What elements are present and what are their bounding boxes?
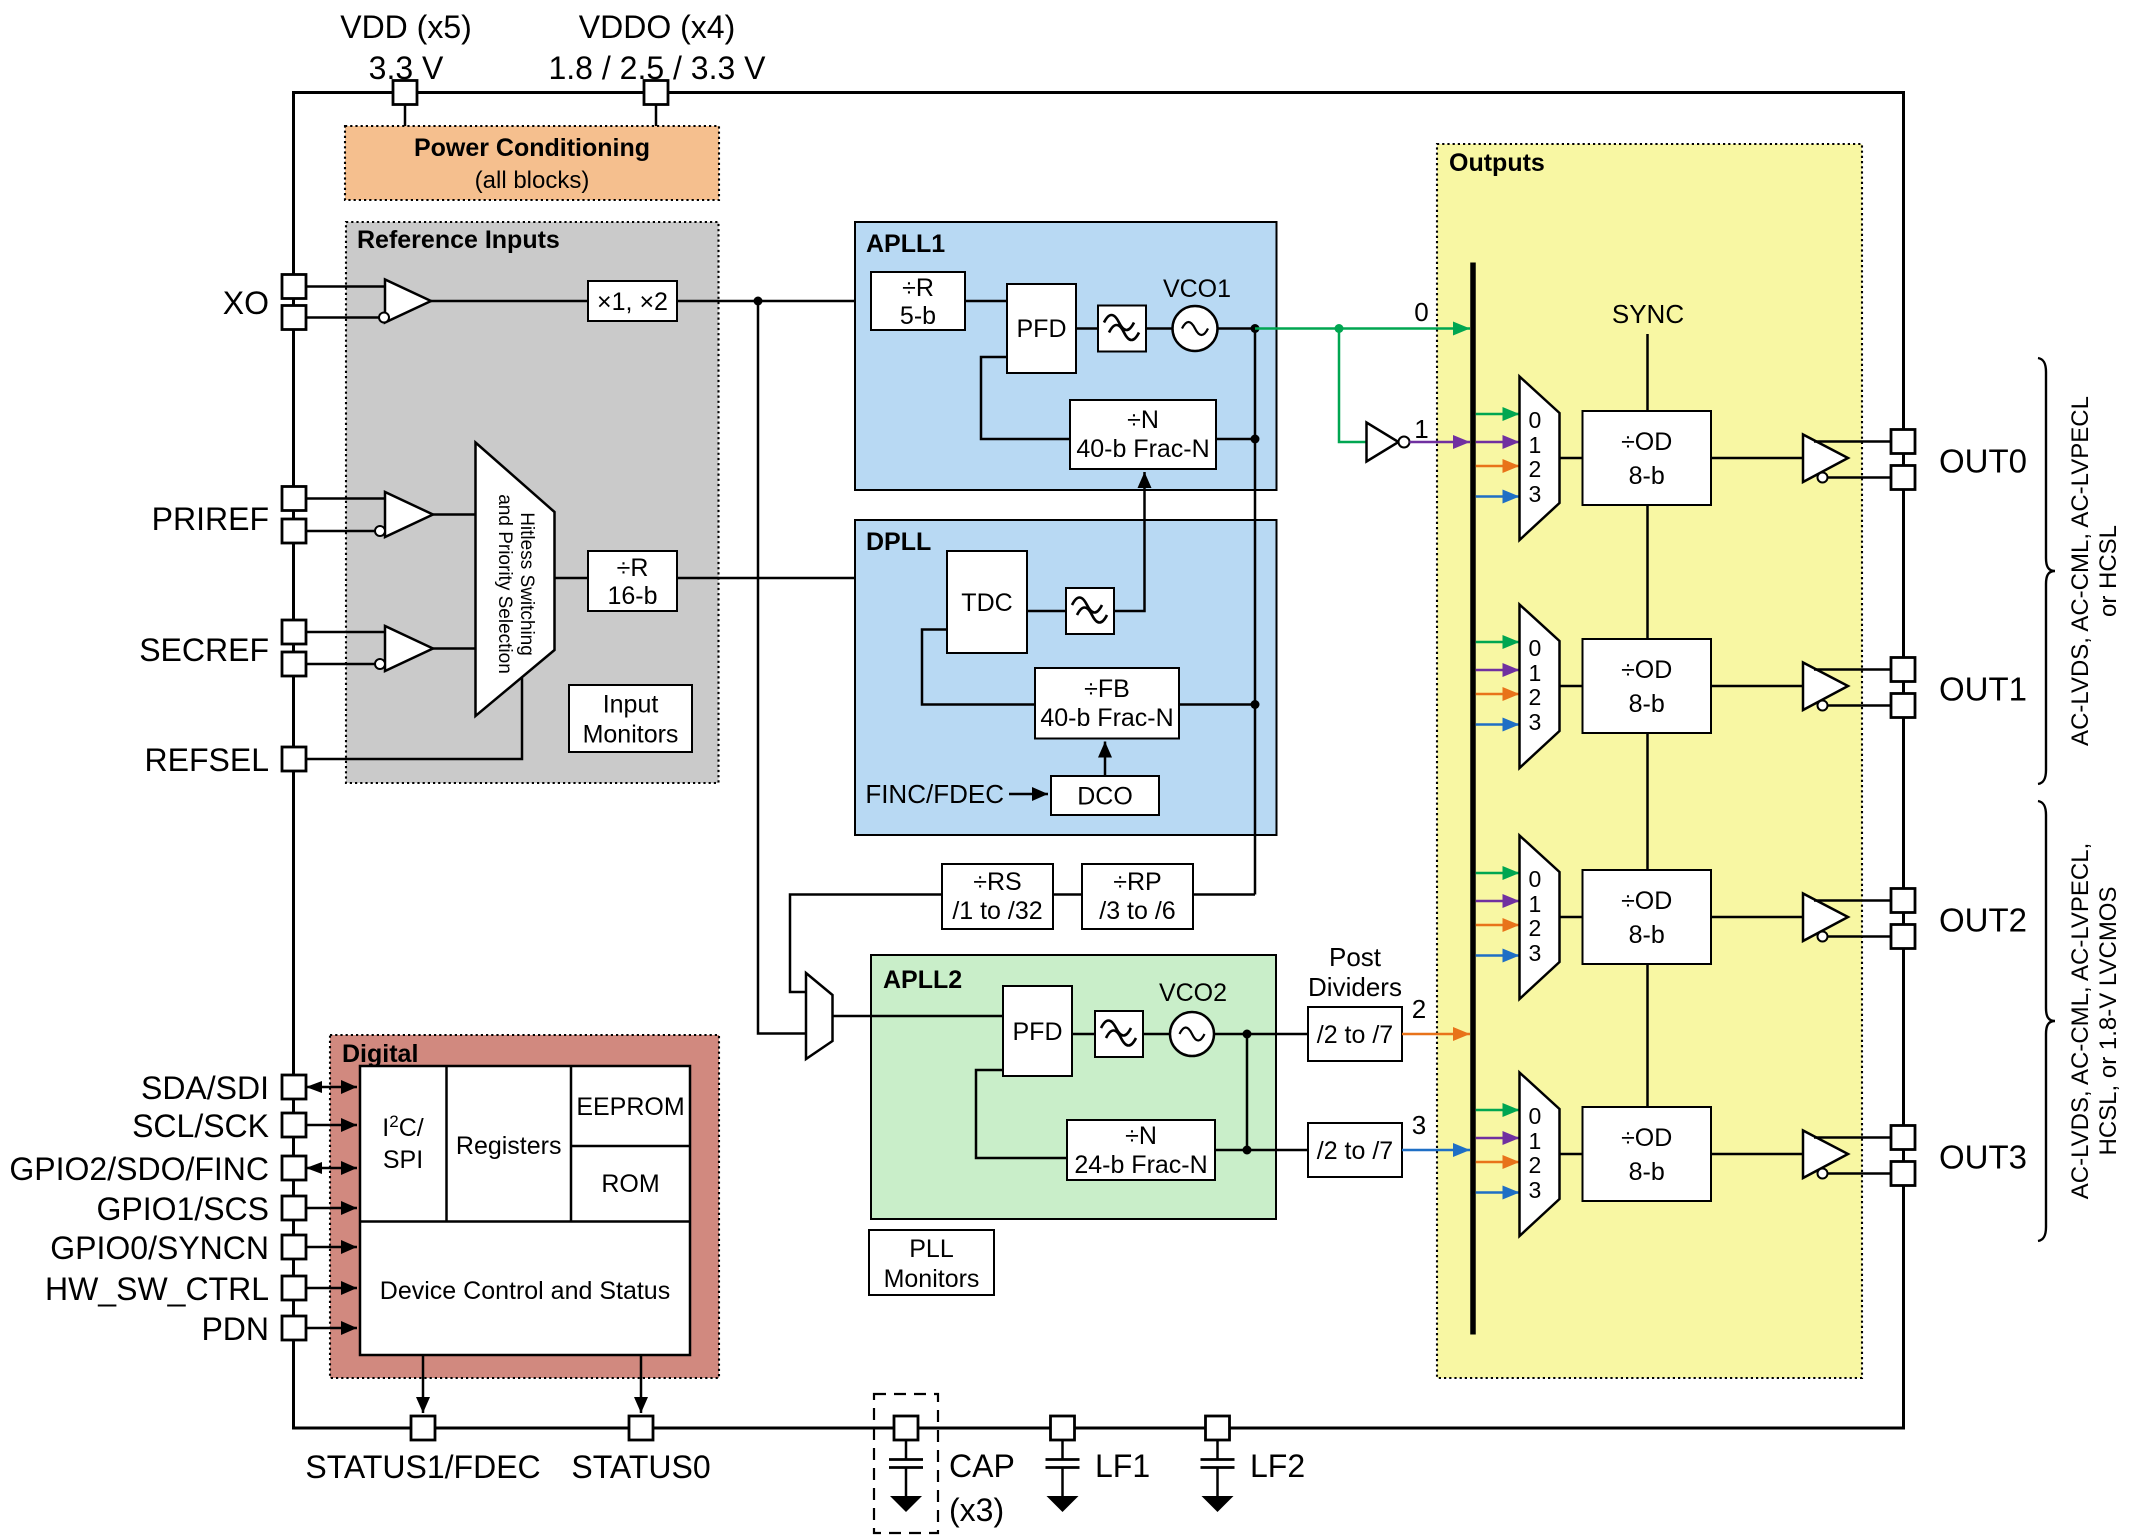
- block Reference Inputs: [346, 222, 719, 783]
- buffer OUT0: [1803, 435, 1848, 483]
- svg-text:VCO1: VCO1: [1163, 275, 1231, 303]
- mux APLL2 ref select: [806, 973, 833, 1059]
- wire OD2 to buffer: [1711, 916, 1803, 919]
- block Digital: [330, 1035, 719, 1378]
- svg-text:16-b: 16-b: [607, 582, 657, 610]
- svg-text:÷R: ÷R: [902, 274, 934, 302]
- buffer OUT1: [1803, 663, 1848, 711]
- svg-text:PRIREF: PRIREF: [152, 501, 269, 537]
- svg-text:SPI: SPI: [383, 1146, 423, 1174]
- node VCO2 out: [1243, 1030, 1252, 1039]
- block APLL2: [871, 955, 1276, 1219]
- svg-text:FINC/FDEC: FINC/FDEC: [865, 779, 1004, 809]
- svg-text:APLL2: APLL2: [883, 966, 962, 994]
- block DPLL: [855, 520, 1277, 835]
- block Input Monitors: [569, 685, 692, 752]
- svg-text:LF1: LF1: [1095, 1448, 1150, 1484]
- buffer PRIREF: [385, 492, 433, 537]
- svg-text:REFSEL: REFSEL: [145, 742, 269, 778]
- wire mux3 to OD3: [1560, 1153, 1583, 1156]
- block Power Conditioning: [345, 126, 719, 200]
- wire vertical to divRP: [1193, 893, 1255, 896]
- svg-text:Input: Input: [603, 691, 659, 719]
- wire N2 to postdiv3: [1215, 1149, 1308, 1152]
- pin SECREF (pair): [282, 620, 306, 644]
- svg-text:I2C/: I2C/: [382, 1112, 423, 1142]
- wire VCO1 net vertical: [1254, 329, 1257, 895]
- svg-text:0: 0: [1529, 866, 1542, 892]
- svg-text:GPIO1/SCS: GPIO1/SCS: [97, 1191, 270, 1227]
- svg-text:÷OD: ÷OD: [1621, 1124, 1672, 1152]
- wire TDC feedback: [922, 630, 1035, 705]
- svg-text:24-b Frac-N: 24-b Frac-N: [1074, 1151, 1207, 1179]
- node green tap: [1335, 324, 1344, 333]
- svg-text:DPLL: DPLL: [866, 528, 931, 556]
- svg-text:8-b: 8-b: [1629, 921, 1665, 949]
- svg-text:40-b Frac-N: 40-b Frac-N: [1076, 435, 1209, 463]
- svg-text:(all blocks): (all blocks): [475, 167, 590, 194]
- svg-text:1: 1: [1529, 432, 1542, 458]
- svg-text:Outputs: Outputs: [1449, 149, 1545, 177]
- svg-text:÷N: ÷N: [1127, 406, 1159, 434]
- svg-text:VDDO (x4): VDDO (x4): [579, 9, 735, 45]
- wire PFD1 to filter1: [1076, 327, 1098, 330]
- svg-text:OUT2: OUT2: [1939, 902, 2027, 939]
- pin GPIO2/SDO/FINC: [282, 1156, 306, 1180]
- svg-text:/3 to /6: /3 to /6: [1099, 897, 1175, 925]
- inverter for net1: [1367, 423, 1399, 462]
- svg-text:Power Conditioning: Power Conditioning: [414, 134, 650, 162]
- wire PRIREF to buffer: [306, 497, 385, 500]
- svg-text:PFD: PFD: [1017, 315, 1067, 343]
- block x1 x2: [588, 281, 677, 321]
- buffer XO input: [385, 280, 431, 323]
- svg-text:DCO: DCO: [1077, 783, 1133, 811]
- divider FB 40-b Frac-N: [1035, 668, 1179, 739]
- svg-text:40-b Frac-N: 40-b Frac-N: [1040, 704, 1173, 732]
- wire TDC to filter2: [1027, 610, 1066, 613]
- svg-text:LF2: LF2: [1250, 1448, 1305, 1484]
- pin HW_SW_CTRL: [282, 1276, 306, 1300]
- pin STATUS0: [629, 1416, 653, 1440]
- svg-text:(x3): (x3): [949, 1492, 1004, 1528]
- svg-text:2: 2: [1412, 994, 1426, 1024]
- brace OUT0/OUT1: [2038, 358, 2055, 784]
- ground LF1: [1047, 1496, 1079, 1512]
- node VCO1 out: [1251, 324, 1260, 333]
- mux OUT3: [1520, 1073, 1560, 1237]
- mux OUT0 input arrows: [1476, 413, 1520, 416]
- svg-text:XO: XO: [223, 285, 269, 321]
- wire RP to RS: [1053, 893, 1082, 896]
- wire buffer to x1x2: [431, 300, 588, 303]
- post divider 3: [1308, 1123, 1402, 1177]
- pin SCL/SCK: [282, 1113, 306, 1137]
- svg-text:3: 3: [1412, 1110, 1426, 1140]
- wire mux1 to OD1: [1560, 685, 1583, 688]
- loop filter DPLL: [1066, 588, 1114, 634]
- divider top/DCS: [360, 1220, 690, 1223]
- svg-text:0: 0: [1529, 1103, 1542, 1129]
- divider EEPROM/ROM: [571, 1145, 690, 1148]
- svg-text:STATUS1/FDEC: STATUS1/FDEC: [305, 1449, 540, 1485]
- pin OUT3 (pair): [1891, 1126, 1915, 1150]
- wire divR5 to PFD1: [965, 300, 1007, 303]
- svg-text:Monitors: Monitors: [884, 1265, 980, 1293]
- divider OD1 8-b: [1583, 639, 1712, 733]
- svg-text:÷R: ÷R: [617, 554, 649, 582]
- svg-text:1: 1: [1529, 660, 1542, 686]
- divider Registers/EEPROM: [570, 1066, 573, 1222]
- wire net0 green: [1255, 327, 1470, 330]
- svg-text:2: 2: [1529, 1152, 1542, 1178]
- svg-text:OUT3: OUT3: [1939, 1139, 2027, 1176]
- divider R 5-b: [871, 272, 965, 330]
- svg-text:÷N: ÷N: [1125, 1122, 1157, 1150]
- mux OUT2: [1520, 836, 1560, 1000]
- svg-text:Device Control and Status: Device Control and Status: [380, 1277, 670, 1305]
- svg-text:/1 to /32: /1 to /32: [952, 897, 1042, 925]
- capacitor LF1: [1061, 1440, 1064, 1459]
- wire filter3 to VCO2: [1143, 1033, 1170, 1036]
- svg-text:Post: Post: [1329, 942, 1382, 972]
- svg-text:0: 0: [1414, 297, 1428, 327]
- svg-text:PDN: PDN: [201, 1311, 269, 1347]
- svg-text:SDA/SDI: SDA/SDI: [141, 1070, 269, 1106]
- svg-text:0: 0: [1529, 635, 1542, 661]
- svg-text:Dividers: Dividers: [1308, 972, 1402, 1002]
- svg-text:Registers: Registers: [456, 1132, 562, 1160]
- svg-text:2: 2: [1529, 684, 1542, 710]
- wire divR16 to TDC: [677, 577, 947, 580]
- loop filter APLL1: [1098, 306, 1146, 352]
- wire PFD2 feedback: [976, 1070, 1067, 1158]
- svg-text:Hitless Switching: Hitless Switching: [516, 512, 537, 656]
- pin OUT1 (pair): [1891, 658, 1915, 682]
- node N1 tap: [1251, 435, 1260, 444]
- wire FINC arrow to DCO: [1009, 793, 1048, 796]
- svg-text:TDC: TDC: [961, 589, 1012, 617]
- svg-text:÷OD: ÷OD: [1621, 656, 1672, 684]
- svg-text:STATUS0: STATUS0: [571, 1449, 710, 1485]
- svg-text:SCL/SCK: SCL/SCK: [132, 1108, 269, 1144]
- block DCO: [1051, 776, 1159, 815]
- svg-text:AC-LVDS, AC-CML, AC-LVPECL: AC-LVDS, AC-CML, AC-LVPECL: [2067, 396, 2094, 746]
- wire net1 purple to bus: [1410, 441, 1471, 444]
- svg-text:2: 2: [1529, 915, 1542, 941]
- divider R 16-b: [588, 551, 677, 611]
- svg-text:/2 to /7: /2 to /7: [1317, 1021, 1393, 1049]
- post divider 2: [1308, 1007, 1402, 1061]
- svg-text:×1, ×2: ×1, ×2: [597, 288, 668, 316]
- svg-text:HCSL, or 1.8-V LVCMOS: HCSL, or 1.8-V LVCMOS: [2095, 887, 2122, 1156]
- mux OUT3 input arrows: [1476, 1109, 1520, 1112]
- wire mux0 to OD0: [1560, 457, 1583, 460]
- capacitor CAP: [905, 1440, 908, 1459]
- wire green to inverter: [1339, 329, 1367, 443]
- svg-text:PLL: PLL: [909, 1235, 954, 1263]
- svg-text:3: 3: [1529, 709, 1542, 735]
- svg-text:CAP: CAP: [949, 1448, 1015, 1484]
- oscillator VCO1: [1173, 306, 1218, 351]
- svg-text:5-b: 5-b: [900, 302, 936, 330]
- wire STATUS0 arrow: [640, 1355, 643, 1413]
- svg-text:GPIO2/SDO/FINC: GPIO2/SDO/FINC: [9, 1151, 269, 1187]
- wire mux2 to OD2: [1560, 916, 1583, 919]
- pin GPIO0/SYNCN: [282, 1235, 306, 1259]
- node N2 tap: [1243, 1146, 1252, 1155]
- mux OUT1: [1520, 605, 1560, 769]
- block APLL1: [855, 222, 1277, 490]
- CAP dashed box: [874, 1394, 938, 1533]
- wire mux to PFD2 overlay: [871, 1015, 1003, 1018]
- wire SECREF buffer to selector: [433, 647, 476, 650]
- wire RS to mux: [790, 895, 942, 993]
- svg-text:8-b: 8-b: [1629, 690, 1665, 718]
- mux OUT0: [1520, 377, 1560, 541]
- digital core box: [360, 1066, 690, 1355]
- block TDC: [947, 551, 1027, 653]
- chip boundary: [294, 93, 1904, 1429]
- wire net2 orange to bus: [1402, 1033, 1470, 1036]
- svg-text:OUT1: OUT1: [1939, 671, 2027, 708]
- svg-text:3: 3: [1529, 481, 1542, 507]
- pin REFSEL: [282, 747, 306, 771]
- svg-text:÷RS: ÷RS: [973, 868, 1021, 896]
- wire PFD2 to filter3: [1072, 1033, 1095, 1036]
- svg-text:1: 1: [1414, 414, 1428, 444]
- wire VDD stub: [404, 105, 407, 128]
- wire XO to buffer: [306, 285, 385, 288]
- svg-text:8-b: 8-b: [1629, 462, 1665, 490]
- divider OD2 8-b: [1583, 870, 1712, 964]
- wire SYNC chain: [1646, 334, 1649, 411]
- svg-text:AC-LVDS, AC-CML, AC-LVPECL,: AC-LVDS, AC-CML, AC-LVPECL,: [2067, 843, 2094, 1200]
- wire x1x2 to APLL1: [677, 300, 871, 303]
- wire SECREF to buffer: [306, 631, 385, 634]
- wire N1 out to vertical: [1216, 438, 1255, 441]
- svg-text:3.3 V: 3.3 V: [369, 50, 444, 86]
- svg-text:8-b: 8-b: [1629, 1158, 1665, 1186]
- block Outputs: [1437, 144, 1862, 1378]
- mux OUT2 input arrows: [1476, 872, 1520, 875]
- pin PDN: [282, 1316, 306, 1340]
- svg-text:APLL1: APLL1: [866, 230, 945, 258]
- divider N1 40-b Frac-N: [1070, 400, 1216, 469]
- svg-text:÷OD: ÷OD: [1621, 887, 1672, 915]
- wire DCO to FB (arrow up): [1104, 742, 1107, 777]
- svg-text:1.8 / 2.5 / 3.3 V: 1.8 / 2.5 / 3.3 V: [548, 50, 766, 86]
- wire filter1 to VCO1: [1146, 327, 1173, 330]
- wire STATUS1 arrow: [422, 1355, 425, 1413]
- wire VDDO stub: [655, 105, 658, 128]
- wire VCO1 out: [1218, 327, 1256, 330]
- oscillator VCO2: [1170, 1012, 1214, 1056]
- wire FB out: [1179, 703, 1255, 706]
- ground LF2: [1202, 1496, 1234, 1512]
- pin OUT2 (pair): [1891, 889, 1915, 913]
- pin OUT0 (pair): [1891, 430, 1915, 454]
- wire REFSEL to selector: [306, 678, 522, 759]
- selector Hitless Switching and Priority Selection: [476, 443, 555, 717]
- wire VCO2 tap vertical: [1246, 1034, 1249, 1150]
- block PFD1: [1007, 284, 1076, 373]
- brace OUT2/OUT3: [2038, 801, 2055, 1241]
- svg-text:1: 1: [1529, 891, 1542, 917]
- wire OD1 to buffer: [1711, 685, 1803, 688]
- buffer OUT3: [1803, 1131, 1848, 1179]
- svg-text:SECREF: SECREF: [139, 632, 269, 668]
- svg-text:÷RP: ÷RP: [1113, 868, 1161, 896]
- mux OUT1 input arrows: [1476, 641, 1520, 644]
- wire PFD1 feedback: [981, 357, 1070, 439]
- divider OD3 8-b: [1583, 1107, 1712, 1201]
- svg-text:HW_SW_CTRL: HW_SW_CTRL: [45, 1271, 269, 1307]
- pin PRIREF (pair): [282, 487, 306, 511]
- svg-text:0: 0: [1529, 407, 1542, 433]
- divider I2C/Registers: [445, 1066, 448, 1222]
- svg-text:2: 2: [1529, 456, 1542, 482]
- wire filter2 up to divN1 (arrow): [1114, 472, 1145, 611]
- pin SDA/SDI: [282, 1075, 306, 1099]
- node XO junction: [754, 297, 763, 306]
- wire net3 blue to bus: [1402, 1149, 1470, 1152]
- pin XO (pair): [282, 275, 306, 299]
- divider OD0 8-b: [1583, 411, 1712, 505]
- svg-text:VDD (x5): VDD (x5): [340, 9, 472, 45]
- svg-text:PFD: PFD: [1013, 1018, 1063, 1046]
- wire OD0 to buffer: [1711, 457, 1803, 460]
- wire PRIREF buffer to selector: [433, 513, 476, 516]
- svg-text:÷OD: ÷OD: [1621, 428, 1672, 456]
- block PLL Monitors: [869, 1230, 994, 1295]
- divider RS /1 to /32: [942, 864, 1053, 929]
- pin STATUS1/FDEC: [411, 1416, 435, 1440]
- wire mux to PFD2: [833, 1015, 1004, 1018]
- svg-text:ROM: ROM: [601, 1170, 659, 1198]
- svg-text:Monitors: Monitors: [583, 721, 679, 749]
- svg-text:÷FB: ÷FB: [1084, 675, 1130, 703]
- ground CAP: [890, 1496, 922, 1512]
- svg-text:Reference Inputs: Reference Inputs: [357, 226, 560, 254]
- svg-text:or HCSL: or HCSL: [2095, 525, 2122, 617]
- divider N2 24-b Frac-N: [1067, 1120, 1215, 1180]
- svg-text:and Priority Selection: and Priority Selection: [494, 494, 515, 674]
- svg-text:3: 3: [1529, 1177, 1542, 1203]
- svg-text:3: 3: [1529, 940, 1542, 966]
- wire OD3 to buffer: [1711, 1153, 1803, 1156]
- pin GPIO1/SCS: [282, 1196, 306, 1220]
- pin VDD: [393, 81, 417, 105]
- node FB tap: [1251, 700, 1260, 709]
- pin LF2: [1206, 1416, 1230, 1440]
- loop filter APLL2: [1095, 1011, 1143, 1057]
- wire XO net vertical: [758, 301, 806, 1034]
- buffer OUT2: [1803, 894, 1848, 942]
- svg-text:/2 to /7: /2 to /7: [1317, 1137, 1393, 1165]
- wire selector to divR16: [555, 577, 589, 580]
- svg-text:EEPROM: EEPROM: [576, 1093, 684, 1121]
- bus clock distribution: [1470, 263, 1476, 1335]
- svg-text:1: 1: [1529, 1128, 1542, 1154]
- wire VCO2 to postdiv2: [1214, 1033, 1308, 1036]
- svg-text:VCO2: VCO2: [1159, 979, 1227, 1007]
- divider RP /3 to /6: [1082, 864, 1193, 929]
- buffer SECREF: [385, 626, 433, 671]
- svg-text:GPIO0/SYNCN: GPIO0/SYNCN: [50, 1230, 269, 1266]
- svg-text:Digital: Digital: [342, 1040, 418, 1068]
- svg-text:OUT0: OUT0: [1939, 443, 2027, 480]
- capacitor LF2: [1216, 1440, 1219, 1459]
- pin CAP: [894, 1416, 918, 1440]
- svg-text:SYNC: SYNC: [1612, 299, 1684, 329]
- pin LF1: [1051, 1416, 1075, 1440]
- pin VDDO: [644, 81, 668, 105]
- block PFD2: [1003, 986, 1072, 1076]
